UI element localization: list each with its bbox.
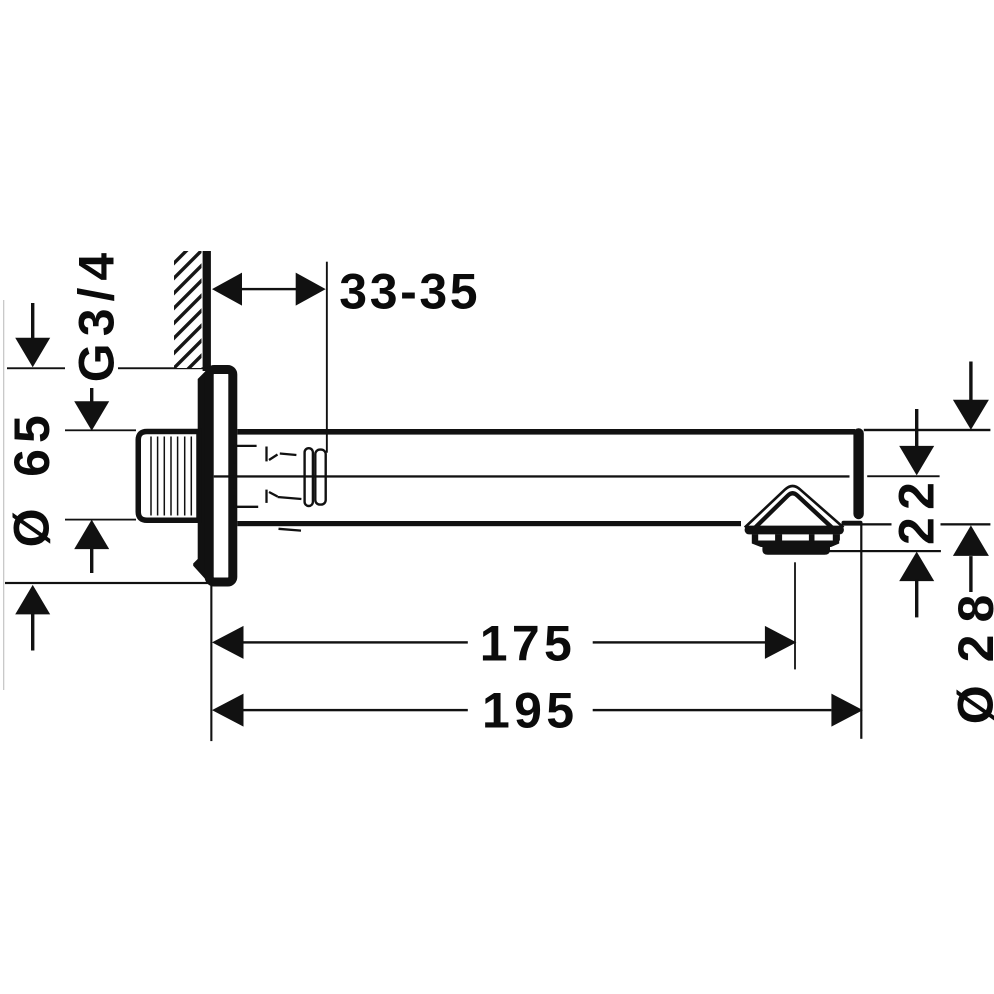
dimension G3/4 arrows xyxy=(90,388,93,402)
flange xyxy=(209,370,233,583)
svg-text:28: 28 xyxy=(948,583,994,663)
faint page fold line xyxy=(3,300,4,690)
extension line thread top (G3/4 upper) xyxy=(65,429,136,431)
flange back plate xyxy=(193,372,214,587)
label 22 xyxy=(892,480,941,545)
svg-text:175: 175 xyxy=(480,616,576,672)
thread stripes xyxy=(151,437,191,516)
dimension 33-35 xyxy=(212,273,242,306)
dimension 175 xyxy=(212,626,244,659)
aerator cup xyxy=(762,547,830,555)
tube bottom edge right xyxy=(842,521,863,526)
tube bottom edge left xyxy=(237,521,741,526)
wall hatching xyxy=(174,251,202,368)
extension line tube bottom right (O28 lower) xyxy=(862,523,990,525)
svg-text:33-35: 33-35 xyxy=(339,264,480,320)
aerator band xyxy=(752,541,839,548)
extension line aerator centre (175 right) xyxy=(794,562,796,669)
label G3/4 xyxy=(68,246,116,386)
svg-text:Ø: Ø xyxy=(947,685,994,724)
extension line aerator bottom (22 lower) xyxy=(829,550,941,552)
thread body xyxy=(138,432,199,521)
extension line wall face down (175/195 left) xyxy=(210,585,212,741)
wall line xyxy=(203,251,211,371)
dimension O65 arrows xyxy=(31,303,34,342)
aerator collar xyxy=(745,526,844,535)
svg-text:G3/4: G3/4 xyxy=(69,246,125,382)
extension line tube top right (O28 upper) xyxy=(864,429,991,431)
dimension O28 arrows xyxy=(969,362,972,401)
aerator dome outer xyxy=(745,486,844,528)
dimension 195 xyxy=(212,694,244,727)
extension line 33-35 right xyxy=(326,262,328,453)
spout end cap xyxy=(853,428,863,519)
svg-text:Ø: Ø xyxy=(4,508,60,547)
extension line 22 upper xyxy=(867,475,939,477)
spout tube top edge xyxy=(237,429,855,435)
svg-text:22: 22 xyxy=(889,475,945,545)
aerator slot row xyxy=(752,534,758,540)
dimension 22 arrows xyxy=(915,409,918,448)
svg-text:65: 65 xyxy=(4,409,60,477)
extension line spout end down (195 right) xyxy=(860,525,862,739)
tube middle line xyxy=(214,475,850,477)
aerator dome inner xyxy=(754,493,833,528)
extension line thread bottom (G3/4 lower) xyxy=(65,519,136,521)
extension line flange bottom (O65 lower) xyxy=(5,582,216,584)
svg-text:195: 195 xyxy=(482,682,578,738)
extension line flange top (O65 upper) xyxy=(7,367,65,369)
fixing screw capsules xyxy=(305,448,313,506)
hidden fixing detail (dashed) xyxy=(234,446,301,531)
